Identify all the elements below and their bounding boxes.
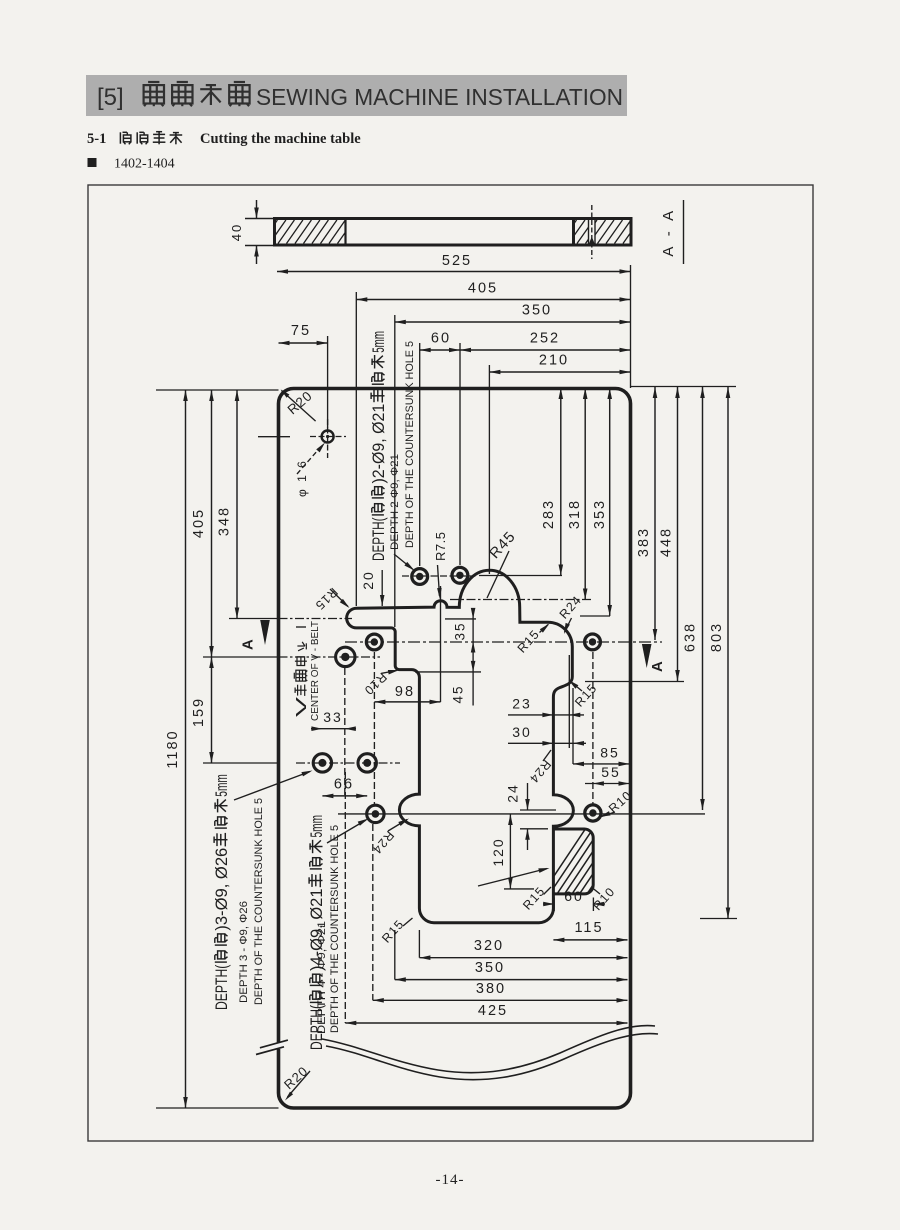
dim 405 bbox=[356, 299, 630, 301]
svg-text:CENTER OF V - BELT: CENTER OF V - BELT bbox=[310, 621, 321, 721]
svg-text:30: 30 bbox=[512, 724, 532, 740]
ext vertical col 419 to dim 320 bbox=[418, 930, 420, 958]
dim 252 bbox=[460, 349, 631, 351]
svg-text:350: 350 bbox=[522, 303, 552, 319]
svg-text:353: 353 bbox=[592, 499, 608, 529]
svg-text:318: 318 bbox=[567, 499, 583, 529]
section centerline bbox=[591, 205, 593, 259]
dim 803 bbox=[727, 387, 729, 919]
ext line bottom-left bbox=[156, 1107, 279, 1109]
centerline holes B C bbox=[402, 575, 478, 577]
svg-text:DEPTH 2 Φ9, Φ21: DEPTH 2 Φ9, Φ21 bbox=[389, 454, 401, 550]
svg-text:320: 320 bbox=[474, 938, 504, 954]
dim 425 bbox=[345, 1022, 627, 1024]
svg-text:159: 159 bbox=[191, 697, 207, 727]
hole F bbox=[313, 754, 331, 772]
svg-text:R10: R10 bbox=[361, 670, 389, 698]
dim 33 bbox=[311, 728, 356, 730]
hole D (phi26) bbox=[336, 647, 355, 666]
svg-text:380: 380 bbox=[476, 981, 506, 997]
svg-text:210: 210 bbox=[539, 353, 569, 369]
header bar bbox=[86, 75, 627, 116]
svg-text:85: 85 bbox=[600, 745, 620, 761]
dim 350 bottom bbox=[395, 979, 628, 981]
depth note 2 bbox=[369, 331, 388, 561]
dim 20 slot bbox=[381, 570, 383, 606]
svg-text:405: 405 bbox=[468, 281, 498, 297]
ext vertical hole F col to dim 425 bbox=[344, 772, 346, 1023]
svg-text:A: A bbox=[240, 639, 257, 650]
ext vertical col 395 to dim 350 bbox=[394, 930, 396, 980]
svg-text:A: A bbox=[649, 661, 666, 672]
ext line top-right bbox=[631, 386, 737, 388]
svg-text:DEPTH 4 - Φ9, Φ21: DEPTH 4 - Φ9, Φ21 bbox=[316, 921, 328, 1034]
centerline hole row 763 bbox=[296, 762, 400, 764]
hole B bbox=[412, 569, 428, 585]
svg-text:40: 40 bbox=[229, 223, 244, 241]
hole J bbox=[585, 805, 601, 821]
svg-text:45: 45 bbox=[451, 684, 466, 703]
hatched pocket outline bbox=[553, 829, 593, 894]
svg-text:60: 60 bbox=[564, 888, 584, 904]
ext vertical hole D col bbox=[344, 668, 346, 796]
dim 159 bbox=[211, 657, 213, 763]
svg-text:33: 33 bbox=[323, 709, 343, 725]
dim 75 bbox=[279, 342, 328, 344]
svg-text:)2-Ø9, Ø21: )2-Ø9, Ø21 bbox=[369, 404, 388, 484]
svg-text:23: 23 bbox=[512, 696, 532, 712]
svg-text:5mm: 5mm bbox=[369, 331, 388, 353]
hole A (phi16) bbox=[322, 431, 334, 443]
dim 1180 bbox=[185, 390, 187, 1108]
svg-text:DEPTH(: DEPTH( bbox=[369, 517, 388, 561]
depth note 3 bbox=[212, 774, 231, 1010]
ext line 159 bottom row bbox=[203, 762, 279, 764]
svg-text:803: 803 bbox=[709, 622, 725, 652]
svg-text:405: 405 bbox=[191, 508, 207, 538]
svg-text:55: 55 bbox=[601, 764, 621, 780]
svg-text:R15: R15 bbox=[312, 585, 340, 613]
dim 98 bbox=[374, 701, 440, 703]
svg-text:R15: R15 bbox=[515, 627, 543, 656]
svg-text:75: 75 bbox=[291, 323, 311, 339]
ext vertical hole E col bbox=[373, 652, 375, 806]
svg-text:24: 24 bbox=[505, 783, 521, 803]
svg-text:φ 1 6: φ 1 6 bbox=[295, 459, 309, 497]
svg-text:383: 383 bbox=[636, 527, 652, 557]
dim 23 bbox=[508, 714, 584, 716]
svg-text:V: V bbox=[294, 696, 310, 717]
break slashes left edge bbox=[260, 1040, 288, 1048]
depth note 4 bbox=[307, 815, 326, 1050]
hole A row tick bbox=[258, 436, 290, 438]
page number bbox=[0, 1172, 900, 1189]
dim 40 (section thickness) bbox=[245, 218, 276, 220]
svg-text:35: 35 bbox=[453, 621, 468, 640]
dim 120 bbox=[509, 814, 511, 889]
dim 66 bbox=[322, 795, 367, 797]
dim 380 bbox=[373, 999, 628, 1001]
hatch divider bbox=[344, 219, 346, 246]
dim 30 bbox=[508, 742, 586, 744]
ext line 60 left bbox=[419, 343, 421, 566]
ext vertical col 373 to dim 380 bbox=[372, 824, 374, 1000]
svg-text:60: 60 bbox=[431, 331, 451, 347]
svg-text:98: 98 bbox=[395, 684, 415, 700]
svg-text:1402-1404: 1402-1404 bbox=[114, 157, 175, 172]
dim 448 bbox=[677, 387, 679, 681]
svg-text:R24: R24 bbox=[557, 593, 585, 622]
dim 24 bbox=[520, 809, 556, 811]
svg-text:R7.5: R7.5 bbox=[433, 532, 448, 561]
dim 45 bbox=[471, 661, 476, 672]
svg-text:)3-Ø9, Ø26: )3-Ø9, Ø26 bbox=[212, 848, 231, 931]
hole E bbox=[366, 634, 382, 650]
svg-text:DEPTH OF THE COUNTERSUNK HOLE: DEPTH OF THE COUNTERSUNK HOLE 5 bbox=[404, 341, 416, 548]
hole H bbox=[367, 805, 384, 822]
svg-text:252: 252 bbox=[530, 331, 560, 347]
svg-text:448: 448 bbox=[659, 527, 675, 557]
ext line 210 bbox=[488, 365, 490, 574]
ext line 405/159 row bbox=[203, 656, 279, 658]
dim 318 bbox=[584, 388, 586, 600]
dim 350 bbox=[395, 321, 631, 323]
ext line 60 right bbox=[459, 343, 461, 565]
break gap on left edge bbox=[273, 1043, 284, 1050]
svg-text:66: 66 bbox=[334, 777, 354, 793]
dim 55 bbox=[585, 783, 630, 785]
svg-text:425: 425 bbox=[478, 1003, 508, 1019]
svg-text:5-1: 5-1 bbox=[87, 131, 106, 147]
ext line top-left bbox=[156, 389, 279, 391]
svg-text:A - A: A - A bbox=[660, 207, 677, 256]
dim 85 bbox=[573, 763, 630, 765]
model number bbox=[88, 158, 97, 167]
svg-text:DEPTH 3 - Φ9, Φ26: DEPTH 3 - Φ9, Φ26 bbox=[238, 901, 250, 1003]
centerline hole row 657 bbox=[279, 656, 381, 658]
dim 210 bbox=[489, 371, 630, 373]
svg-text:115: 115 bbox=[574, 920, 603, 936]
centerline hole row 813.9 bbox=[338, 813, 705, 815]
ext vertical 573 bbox=[572, 688, 574, 764]
svg-text:5mm: 5mm bbox=[307, 815, 326, 838]
dim 348 bbox=[236, 390, 238, 619]
centerline slot row bbox=[279, 618, 353, 620]
svg-text:SEWING MACHINE INSTALLATION: SEWING MACHINE INSTALLATION bbox=[256, 84, 623, 110]
R20 top-left leader bbox=[282, 391, 316, 422]
crosshair hole A bbox=[310, 436, 346, 438]
ext line right of plate top bbox=[630, 265, 632, 388]
svg-text:R45: R45 bbox=[486, 528, 519, 562]
svg-text:638: 638 bbox=[683, 622, 699, 652]
wavy break line lower bbox=[326, 1034, 658, 1080]
section arrow A right bbox=[642, 644, 652, 668]
leader to pocket bbox=[478, 869, 547, 887]
ext vertical right hole col bbox=[592, 652, 594, 804]
ext vertical notch to 98 bbox=[440, 586, 442, 702]
svg-text:DEPTH(: DEPTH( bbox=[212, 964, 231, 1010]
svg-text:DEPTH OF THE COUNTERSUNK HOLE: DEPTH OF THE COUNTERSUNK HOLE 5 bbox=[329, 825, 341, 1033]
dim 35 bbox=[472, 610, 474, 706]
svg-text:283: 283 bbox=[541, 499, 557, 529]
dim 383 bbox=[654, 387, 656, 640]
dim 283 bbox=[560, 388, 562, 576]
dim 60 bbox=[420, 349, 460, 351]
cutout outline bbox=[347, 570, 574, 922]
svg-text:1180: 1180 bbox=[165, 729, 181, 768]
svg-text:525: 525 bbox=[442, 253, 472, 269]
dim 405 vertical bbox=[211, 390, 213, 657]
svg-text:348: 348 bbox=[217, 506, 233, 536]
section A-A cross-section bar bbox=[275, 219, 632, 246]
svg-text:R24: R24 bbox=[526, 757, 553, 786]
hole G bbox=[358, 754, 376, 772]
svg-text:Cutting the machine table: Cutting the machine table bbox=[200, 131, 361, 147]
ext line 405 bbox=[355, 292, 357, 606]
table plate outline R20 bbox=[279, 389, 631, 1109]
ext vertical 569 bbox=[568, 655, 570, 748]
section arrow A left bbox=[260, 620, 270, 645]
dim 320 bbox=[419, 957, 627, 959]
ext line 348 row (section line A left) bbox=[229, 618, 279, 620]
svg-text:5mm: 5mm bbox=[212, 774, 231, 797]
svg-text:350: 350 bbox=[475, 960, 505, 976]
hole I bbox=[585, 634, 601, 650]
V-belt center label bbox=[294, 642, 310, 717]
svg-text:R20: R20 bbox=[285, 388, 316, 418]
svg-text:20: 20 bbox=[360, 570, 376, 590]
ext line 350 bbox=[394, 315, 396, 627]
svg-text:[5]: [5] bbox=[97, 84, 124, 111]
dim 638 bbox=[702, 387, 704, 810]
svg-text:DEPTH OF THE COUNTERSUNK HOLE: DEPTH OF THE COUNTERSUNK HOLE 5 bbox=[253, 798, 265, 1005]
dim 115 bbox=[553, 939, 627, 941]
dim 525 bbox=[277, 271, 631, 273]
wavy break line upper bbox=[322, 1026, 655, 1073]
hole C bbox=[452, 567, 468, 583]
svg-text:R24: R24 bbox=[369, 828, 396, 857]
section row right centerline bbox=[345, 641, 662, 643]
drawing frame bbox=[88, 185, 813, 1141]
dim 353 bbox=[609, 388, 611, 616]
ext line 75 bbox=[327, 336, 329, 428]
svg-text:R15: R15 bbox=[379, 917, 407, 946]
dim 60 pocket bbox=[553, 898, 555, 912]
svg-text:120: 120 bbox=[490, 837, 506, 866]
